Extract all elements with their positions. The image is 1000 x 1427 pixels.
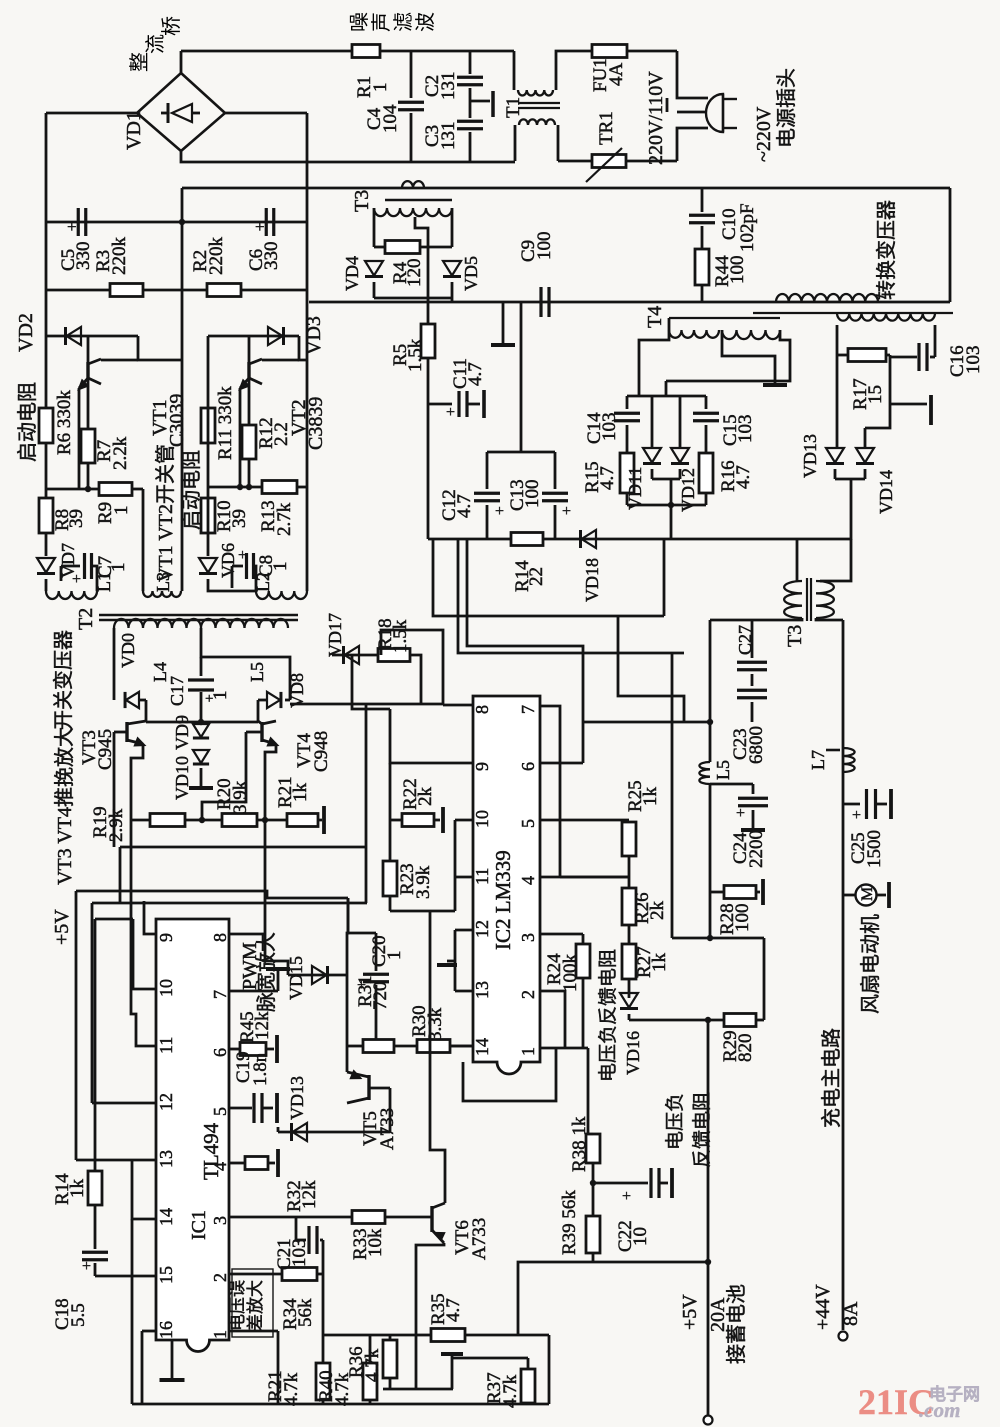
capacitor C2 xyxy=(469,51,472,74)
svg-text:5: 5 xyxy=(518,819,538,828)
wire pin15 lead xyxy=(95,1275,156,1278)
svg-text:1: 1 xyxy=(270,562,291,572)
resistor R16 xyxy=(699,453,713,493)
node dot rail start xyxy=(179,219,185,225)
label 电压误差放大 xyxy=(232,1269,273,1337)
svg-text:VD16: VD16 xyxy=(623,1031,643,1075)
wire py1389 ground xyxy=(383,1388,453,1391)
svg-text:转换变压器: 转换变压器 xyxy=(875,200,898,300)
wire rail VT2 down xyxy=(207,336,210,443)
diode VD4 xyxy=(365,261,383,276)
svg-text:+: + xyxy=(67,217,77,236)
svg-text:C3039: C3039 xyxy=(166,394,188,447)
wire C23 bottom row py722 xyxy=(583,721,710,724)
svg-text:3.3k: 3.3k xyxy=(425,1007,446,1041)
resistor R29 xyxy=(724,1014,756,1027)
capacitor C6 xyxy=(265,208,268,236)
transformer T3 snubber xyxy=(402,181,424,188)
transistor VT6 xyxy=(430,1206,433,1232)
svg-text:L2: L2 xyxy=(253,572,273,592)
svg-text:VD17: VD17 xyxy=(325,613,345,657)
ground right cell xyxy=(890,403,927,406)
diode VD7 xyxy=(37,558,55,573)
svg-text:720: 720 xyxy=(370,982,391,1011)
wire VT5 base xyxy=(369,1087,390,1090)
capacitor C11 xyxy=(427,358,430,539)
capacitor C17 xyxy=(200,657,203,676)
capacitor C8 xyxy=(232,565,243,568)
svg-text:M: M xyxy=(859,887,876,901)
diode VD12 xyxy=(679,396,682,428)
wire IC2 pin5 lead xyxy=(540,819,629,822)
wire long rail py188 xyxy=(182,187,950,190)
svg-text:+5V: +5V xyxy=(51,909,73,945)
wire jog VT1 cell xyxy=(138,336,181,360)
resistor R13 xyxy=(262,481,297,494)
svg-text:T1: T1 xyxy=(503,97,524,118)
resistor R15 xyxy=(620,453,634,493)
resistor R38 xyxy=(586,1134,600,1163)
svg-text:桥: 桥 xyxy=(160,16,183,36)
svg-text:1k: 1k xyxy=(649,953,670,973)
resistor R40 xyxy=(369,1335,372,1363)
wire pin9 lead xyxy=(144,901,156,934)
svg-text:C27: C27 xyxy=(735,625,755,655)
wire IC2 pin10 pin11 leads xyxy=(455,819,473,822)
wire VD pair bottoms xyxy=(652,478,680,481)
svg-text:+5V: +5V xyxy=(679,1294,701,1330)
wire pin11 path xyxy=(131,820,156,1046)
wire VT6 emitter xyxy=(416,1243,444,1389)
transformer main secondary xyxy=(837,313,935,321)
svg-text:波: 波 xyxy=(414,12,437,32)
diode VD5 xyxy=(451,208,454,247)
svg-text:4A: 4A xyxy=(606,63,627,87)
motor M fan xyxy=(843,894,856,897)
wire jog VT2 cell xyxy=(299,336,307,360)
resistor R23 xyxy=(383,861,397,896)
svg-text:1k: 1k xyxy=(640,787,661,807)
resistor R14 xyxy=(511,533,543,546)
resistor R39 xyxy=(592,1183,595,1216)
svg-text:4.7: 4.7 xyxy=(465,362,486,386)
svg-text:VD10: VD10 xyxy=(172,756,192,800)
wire R9 row xyxy=(46,488,99,491)
wire IC2 pin14 lead R30 xyxy=(450,1045,473,1048)
resistor R34 xyxy=(282,1268,317,1281)
wire R29 row xyxy=(629,1019,724,1022)
wire loop py616 xyxy=(433,539,664,616)
resistor R5 xyxy=(421,324,435,358)
svg-text:9: 9 xyxy=(472,762,492,771)
transistor VT5 xyxy=(367,1075,370,1100)
winding L1 xyxy=(46,591,97,599)
svg-text:电压负反馈电阻: 电压负反馈电阻 xyxy=(597,949,619,1082)
svg-text:+: + xyxy=(562,503,571,520)
svg-text:220k: 220k xyxy=(109,237,130,276)
diode VD10 xyxy=(193,750,209,763)
wire T3 left leg xyxy=(373,208,376,247)
svg-text:VD18: VD18 xyxy=(582,558,602,602)
diode VD6 xyxy=(199,558,217,573)
svg-text:VD15: VD15 xyxy=(286,956,306,1000)
svg-text:103: 103 xyxy=(599,413,620,442)
svg-text:VD5: VD5 xyxy=(461,256,481,291)
capacitor C4 xyxy=(410,51,413,98)
capacitor C5 xyxy=(77,208,80,236)
transistor VT4 xyxy=(257,700,260,721)
svg-text:13: 13 xyxy=(472,981,492,999)
svg-text:103: 103 xyxy=(963,346,984,375)
diode VD18 xyxy=(582,530,597,548)
wire T3 center tap to R5 xyxy=(415,217,428,324)
wire bridge right xyxy=(225,112,307,115)
svg-text:+: + xyxy=(446,404,455,421)
wire VD1314 bottoms xyxy=(835,478,865,481)
svg-text:VD11: VD11 xyxy=(625,467,645,510)
svg-text:4: 4 xyxy=(210,1162,230,1171)
svg-text:39: 39 xyxy=(66,509,87,528)
wire bridge left to rail px46 xyxy=(46,112,137,115)
resistor R21 xyxy=(287,814,318,827)
svg-text:C945: C945 xyxy=(95,729,116,770)
svg-text:4.7k: 4.7k xyxy=(362,1348,383,1382)
wire VD4 bottom to VD5 xyxy=(374,297,452,300)
wire VD11 cell top bus xyxy=(627,395,706,398)
wire line py539 xyxy=(428,538,511,541)
svg-text:100k: 100k xyxy=(560,954,581,993)
wire +5V column xyxy=(707,1020,710,1416)
wire pin1 lead xyxy=(229,1330,278,1333)
svg-text:2200: 2200 xyxy=(746,830,767,868)
svg-text:C3839: C3839 xyxy=(305,397,327,450)
wire pin9 line py709 xyxy=(352,655,390,709)
wire px764 col xyxy=(763,938,766,1020)
svg-text:L1: L1 xyxy=(94,572,114,592)
resistor R18 xyxy=(378,649,410,662)
svg-text:1.5k: 1.5k xyxy=(390,619,411,653)
svg-text:VT1 VT2开关管: VT1 VT2开关管 xyxy=(154,444,177,582)
resistor R21b xyxy=(316,1363,330,1400)
svg-text:4: 4 xyxy=(518,876,538,885)
svg-text:+: + xyxy=(852,807,861,824)
transistor VT3 xyxy=(145,700,148,721)
wire R22 R23 column xyxy=(389,763,392,911)
op-amp U IC2 LM339 body xyxy=(473,696,540,1074)
diode VD15 xyxy=(288,974,347,977)
wire L3 feedback column xyxy=(142,489,145,591)
svg-text:10: 10 xyxy=(630,1227,651,1246)
resistor R17 xyxy=(848,349,886,362)
svg-text:3: 3 xyxy=(518,933,538,942)
svg-text:T4: T4 xyxy=(644,306,666,328)
svg-text:3: 3 xyxy=(210,1216,230,1225)
transistor VT1 xyxy=(87,336,90,362)
resistor R37 xyxy=(452,1357,528,1360)
wire IC2 pin2 lead xyxy=(540,991,565,1048)
resistor R30 xyxy=(394,1045,417,1048)
svg-text:14: 14 xyxy=(156,1208,176,1226)
svg-text:T3: T3 xyxy=(351,190,373,212)
resistor R2 xyxy=(207,284,241,297)
svg-text:L5: L5 xyxy=(247,662,267,682)
capacitor C14 xyxy=(626,396,629,409)
svg-text:差放大: 差放大 xyxy=(246,1280,265,1331)
wire IC2 pin9 lead xyxy=(390,709,473,763)
wire cell output to line539 xyxy=(670,479,673,540)
op-amp U IC1 TL494 body xyxy=(156,919,229,1352)
transformer T3 output xyxy=(820,539,851,581)
svg-text:8: 8 xyxy=(472,705,492,714)
wire pin16 lead xyxy=(142,1330,156,1333)
capacitor C16 xyxy=(934,325,937,357)
resistor R33 xyxy=(352,1211,385,1224)
inductor L7 xyxy=(843,748,855,772)
bridge rectifier VD1 xyxy=(137,73,225,151)
diode VD9 xyxy=(193,724,209,737)
svg-text:A733: A733 xyxy=(469,1218,490,1260)
capacitor C20 xyxy=(347,932,376,935)
capacitor C15 xyxy=(705,396,708,409)
wire pin12 lead xyxy=(92,1102,156,1105)
svg-text:R38 1k: R38 1k xyxy=(569,1116,590,1172)
wire C5C6 row py222 xyxy=(46,221,307,224)
capacitor C9 xyxy=(539,287,542,317)
wire VT1 emitter xyxy=(78,388,81,489)
resistor R9 xyxy=(99,483,132,496)
capacitor C22 xyxy=(593,1182,648,1185)
capacitor C25 xyxy=(843,803,860,806)
svg-text:风扇电动机: 风扇电动机 xyxy=(859,914,882,1014)
capacitor C21 xyxy=(295,1217,298,1240)
wire top rail py51 xyxy=(181,50,514,53)
svg-text:电源插头: 电源插头 xyxy=(775,68,798,148)
svg-text:2.9k: 2.9k xyxy=(106,808,127,842)
diode VD14 xyxy=(864,428,867,447)
wire loop py646 pin6 xyxy=(467,539,583,722)
diode VD0 xyxy=(113,628,116,700)
resistor R27 xyxy=(628,925,631,944)
svg-text:56k: 56k xyxy=(295,1298,316,1327)
diode VD8 xyxy=(258,699,266,702)
svg-text:1: 1 xyxy=(384,951,405,961)
wire T3 bottom leads xyxy=(710,618,802,620)
wire px348 col down xyxy=(347,898,350,933)
wire T4 left end xyxy=(639,318,669,396)
svg-text:2k: 2k xyxy=(647,901,668,921)
resistor R44 xyxy=(695,249,709,285)
capacitor C27 xyxy=(751,620,754,658)
wire pin8 col VD15 xyxy=(265,934,288,975)
svg-text:2: 2 xyxy=(518,990,538,999)
svg-text:15: 15 xyxy=(156,1266,176,1284)
capacitor C12 xyxy=(520,302,523,452)
svg-text:100: 100 xyxy=(732,904,753,933)
transformer T4 xyxy=(669,317,780,319)
wire px366 col xyxy=(365,704,368,847)
wire cell bottom bus xyxy=(627,504,706,507)
svg-text:R11 330k: R11 330k xyxy=(215,386,236,460)
svg-text:+: + xyxy=(72,571,81,588)
svg-text:VD14: VD14 xyxy=(876,470,896,514)
wire bridge top to rail xyxy=(180,51,183,73)
capacitor C7 xyxy=(61,565,80,568)
svg-text:开关变压器: 开关变压器 xyxy=(52,630,75,730)
wire py911 xyxy=(390,910,455,913)
wire py938 xyxy=(672,937,764,940)
wire VT3 emitter xyxy=(131,744,143,820)
zener VD13b xyxy=(278,1131,390,1134)
wire bus py891 xyxy=(76,891,348,898)
wire to bottom bus right xyxy=(548,1335,551,1404)
svg-text:12k: 12k xyxy=(252,1011,273,1040)
wire pin8 lead xyxy=(229,933,265,936)
transistor VT2 xyxy=(248,336,251,362)
resistor R25 xyxy=(622,822,636,856)
capacitor C24 xyxy=(710,783,753,786)
transformer main primary xyxy=(776,294,878,302)
wire IC2 pin8 lead xyxy=(443,704,473,707)
svg-text:330: 330 xyxy=(261,242,282,271)
wire T3 left top xyxy=(796,539,799,581)
svg-text:8A: 8A xyxy=(840,1301,862,1326)
svg-text:220k: 220k xyxy=(206,237,227,276)
svg-text:+: + xyxy=(238,547,247,564)
svg-text:100: 100 xyxy=(534,232,555,261)
svg-text:L7: L7 xyxy=(808,750,828,770)
svg-text:2: 2 xyxy=(210,1273,230,1282)
svg-text:11: 11 xyxy=(156,1037,176,1054)
svg-text:IC2 LM339: IC2 LM339 xyxy=(491,850,515,950)
svg-text:整: 整 xyxy=(128,52,151,72)
wire bottom bus xyxy=(132,1403,549,1406)
svg-text:10: 10 xyxy=(156,979,176,997)
terminal +5V xyxy=(704,1416,713,1425)
fuse FU1 xyxy=(592,45,627,58)
svg-text:6: 6 xyxy=(518,762,538,771)
wire VT4 emitter xyxy=(265,744,276,934)
svg-text:13: 13 xyxy=(156,1150,176,1168)
svg-text:39: 39 xyxy=(229,509,250,528)
svg-text:1.5k: 1.5k xyxy=(405,338,426,372)
svg-text:12: 12 xyxy=(472,920,492,938)
svg-text:120: 120 xyxy=(404,259,425,288)
wire rail py302 xyxy=(309,301,950,304)
wire T4 center tap ground xyxy=(722,330,775,383)
wire R17C16 junction down xyxy=(865,355,890,428)
wire bridge bottom xyxy=(181,151,515,162)
capacitor C10 xyxy=(701,188,704,212)
wire C17 node xyxy=(146,721,258,724)
svg-text:启动电阻: 启动电阻 xyxy=(16,382,39,462)
svg-text:+: + xyxy=(622,1188,631,1205)
svg-text:VD9: VD9 xyxy=(172,715,192,750)
wire VT2 emitter xyxy=(239,388,242,487)
svg-text:16: 16 xyxy=(156,1321,176,1339)
diode VD11 xyxy=(651,396,654,447)
wire px347 col xyxy=(347,898,348,1072)
wire R3R2 row py290 xyxy=(46,289,307,292)
wire pin3 lead C21 R33 xyxy=(229,1216,432,1219)
diode VD2 xyxy=(46,335,138,338)
resistor R20 xyxy=(222,814,257,827)
capacitor C3 xyxy=(469,101,472,118)
svg-text:1500: 1500 xyxy=(864,830,885,868)
svg-text:.com: .com xyxy=(919,1398,960,1422)
wire VT3 base xyxy=(114,731,127,734)
svg-text:22: 22 xyxy=(526,567,547,586)
wire VD8 line py704 xyxy=(290,703,443,706)
svg-text:R6 330k: R6 330k xyxy=(54,390,75,455)
svg-text:VD3: VD3 xyxy=(303,316,325,355)
wire cell output xyxy=(850,479,853,540)
svg-text:~220V: ~220V xyxy=(753,106,775,162)
svg-text:102pF: 102pF xyxy=(737,203,758,252)
wire main output col px710 xyxy=(709,620,712,762)
wire loop py696 xyxy=(618,616,684,722)
svg-text:1: 1 xyxy=(111,506,132,516)
resistor R4 xyxy=(385,241,420,254)
svg-text:15: 15 xyxy=(865,385,886,404)
svg-text:131: 131 xyxy=(438,72,459,101)
svg-text:启动电阻: 启动电阻 xyxy=(180,450,203,530)
svg-text:IC1: IC1 xyxy=(188,1210,210,1240)
resistor R6 xyxy=(39,408,53,443)
svg-text:L5: L5 xyxy=(713,760,733,780)
capacitor C19 xyxy=(229,1107,252,1110)
svg-text:100: 100 xyxy=(522,480,543,509)
svg-text:330: 330 xyxy=(73,242,94,271)
capacitor C23 xyxy=(737,689,767,692)
wire rail right end xyxy=(949,188,952,302)
wire pin13 lead xyxy=(76,1159,156,1162)
wire pin14 lead xyxy=(132,1161,156,1219)
resistor R8 xyxy=(39,498,53,533)
svg-text:电压误: 电压误 xyxy=(228,1280,247,1331)
wire R35 row xyxy=(323,1334,416,1337)
svg-text:100: 100 xyxy=(727,256,748,285)
resistor R14b 1k xyxy=(94,919,97,1171)
wire px132 col to bottom bus xyxy=(131,1219,134,1404)
svg-text:4.7: 4.7 xyxy=(597,466,618,490)
power plug xyxy=(677,51,708,98)
wire R35 to +5V col xyxy=(465,1334,549,1337)
switch 110V selector xyxy=(677,111,706,114)
svg-text:4.7: 4.7 xyxy=(454,494,475,518)
svg-text:7: 7 xyxy=(210,990,230,999)
wire IC2 pin12 ground xyxy=(455,929,473,932)
svg-text:+: + xyxy=(495,503,504,520)
resistor R19 xyxy=(150,814,185,827)
wire R18 to line704 xyxy=(410,655,421,704)
diode VD16 xyxy=(628,979,631,998)
wire IC2 pin4 lead xyxy=(540,876,629,879)
svg-text:VD8: VD8 xyxy=(287,673,307,708)
transformer T1 xyxy=(470,100,490,103)
svg-text:4.7: 4.7 xyxy=(733,465,754,489)
svg-text:VD0: VD0 xyxy=(118,633,138,668)
svg-text:TR1: TR1 xyxy=(596,111,617,145)
capacitor C13 xyxy=(521,451,555,454)
resistor R45 xyxy=(229,1048,240,1051)
svg-text:VD1: VD1 xyxy=(123,111,145,150)
wire rail py188 column xyxy=(181,188,184,222)
wire R25 R26 node xyxy=(560,876,629,879)
wire L4L5 tap xyxy=(201,628,290,700)
capacitor C18 xyxy=(94,1205,97,1249)
resistor R10 xyxy=(201,498,215,533)
svg-text:104: 104 xyxy=(380,104,401,133)
